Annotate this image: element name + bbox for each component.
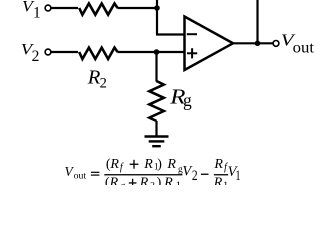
wire to inverting input <box>156 33 185 35</box>
wire output <box>233 42 273 44</box>
svg-text:out: out <box>74 171 87 182</box>
formula fraction bar 2 <box>214 174 228 175</box>
formula fraction bar 1 <box>104 174 182 175</box>
wire <box>117 7 157 9</box>
terminal V1 <box>45 5 51 11</box>
svg-text:R: R <box>213 176 223 186</box>
formula equals sign <box>91 172 100 173</box>
formula Vout equation <box>65 157 241 191</box>
svg-text:): ) <box>157 176 162 186</box>
wire <box>51 51 78 53</box>
terminal V2 <box>45 49 51 55</box>
svg-text:g: g <box>183 90 192 110</box>
wire to ground <box>155 121 157 136</box>
op-amp minus pin <box>187 33 197 35</box>
resistor R2 <box>79 48 117 59</box>
op-amp U1 <box>185 17 234 71</box>
node junction non-inverting <box>154 49 160 55</box>
svg-text:1: 1 <box>235 168 240 184</box>
resistor R1 <box>79 4 117 15</box>
svg-text:2: 2 <box>100 75 107 91</box>
svg-text:out: out <box>293 39 315 56</box>
svg-text:R: R <box>109 157 119 172</box>
svg-text:1: 1 <box>176 180 181 185</box>
svg-text:R: R <box>163 176 173 186</box>
wire feedback stub <box>156 0 158 35</box>
op-amp plus pin <box>187 48 197 58</box>
svg-text:R: R <box>87 68 101 89</box>
wire to Rg <box>155 52 157 82</box>
wire <box>51 7 78 9</box>
svg-text:R: R <box>139 176 149 186</box>
svg-text:1: 1 <box>33 4 41 21</box>
wire to non-inverting input <box>117 51 184 53</box>
svg-text:): ) <box>157 157 162 172</box>
ground <box>145 137 169 147</box>
svg-text:1: 1 <box>223 180 228 185</box>
resistor Rg <box>149 81 164 121</box>
svg-text:R: R <box>109 176 119 186</box>
formula minus sign <box>201 174 209 175</box>
svg-text:2: 2 <box>150 181 155 185</box>
terminal Vout <box>273 41 279 47</box>
svg-text:g: g <box>121 181 126 185</box>
node output junction <box>255 41 261 47</box>
svg-text:2: 2 <box>192 168 198 184</box>
svg-text:2: 2 <box>32 48 40 65</box>
svg-text:R: R <box>143 157 153 172</box>
node junction inverting <box>154 5 160 11</box>
svg-text:R: R <box>166 157 176 172</box>
wire feedback stub output <box>256 0 258 43</box>
svg-text:R: R <box>213 157 223 172</box>
